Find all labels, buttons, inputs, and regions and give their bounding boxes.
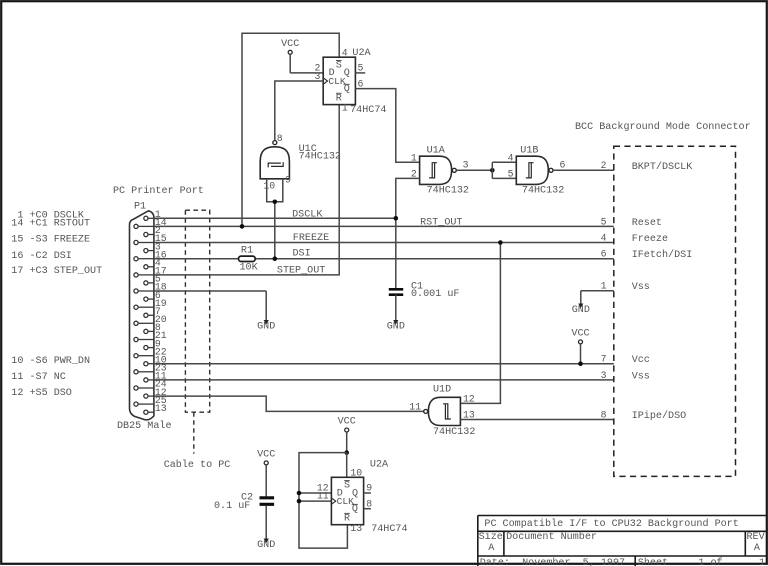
junction U1C inputs tie (273, 200, 278, 205)
wire U1A output to U1B inputs (456, 169, 492, 171)
svg-text:VCC: VCC (281, 39, 299, 50)
svg-text:74HC74: 74HC74 (371, 524, 407, 535)
svg-text:15 -S3 FREEZE: 15 -S3 FREEZE (11, 235, 90, 246)
svg-text:GND: GND (572, 305, 590, 316)
nand gate U1C 74HC132 (points up) (260, 147, 289, 179)
svg-text:Size: Size (479, 531, 503, 543)
junction VCC tie node (344, 450, 349, 455)
wire P1 pin18 to ground (154, 290, 266, 292)
wire U2A pin5 Q stub (355, 72, 365, 74)
junction FREEZE / U1D branch (498, 240, 503, 245)
wire net STEP_OUT (P1 pin17 right then up to U2A pin1) (154, 105, 339, 275)
svg-text:RST_OUT: RST_OUT (420, 218, 462, 229)
junction U1B input tie (490, 168, 495, 173)
connector P1 DB25 body (130, 211, 154, 420)
svg-text:74HC74: 74HC74 (350, 105, 386, 116)
svg-text:S: S (344, 481, 350, 492)
svg-text:8: 8 (601, 409, 607, 420)
svg-text:IPipe/DSO: IPipe/DSO (632, 410, 687, 422)
svg-text:U1A: U1A (427, 145, 446, 156)
svg-text:6: 6 (601, 249, 607, 260)
junction U1C input on DSI (273, 256, 278, 261)
svg-text:3: 3 (463, 160, 469, 171)
capacitor C1 (389, 289, 403, 294)
wire spare Q pin9 stub (364, 492, 371, 494)
wire net DSI right segment (R1 to BDM pin6) (255, 258, 614, 260)
cable boundary dashed stub (193, 412, 195, 453)
junction DSCLK / C1 branch (394, 216, 399, 221)
svg-text:8: 8 (277, 133, 283, 144)
svg-text:0.001 uF: 0.001 uF (411, 289, 459, 300)
wire net RST_OUT (P1 pin14 to BDM pin5) (154, 225, 614, 227)
wire VCC tie left loop to pin13 reset (299, 453, 347, 548)
nand gate U1A 74HC132 (420, 156, 452, 184)
wire spare Qbar pin8 stub (364, 508, 371, 510)
svg-text:74HC132: 74HC132 (522, 185, 564, 196)
svg-text:13: 13 (350, 523, 362, 534)
svg-text:11: 11 (409, 401, 421, 412)
junction RST_OUT / set loop (240, 224, 245, 229)
svg-text:GND: GND (257, 322, 275, 333)
svg-text:Q: Q (344, 84, 350, 95)
wire spare D pin12 tie (299, 492, 331, 494)
svg-text:U2A: U2A (352, 48, 371, 59)
svg-text:Freeze: Freeze (632, 234, 668, 245)
svg-text:A: A (488, 543, 495, 554)
wire U1C output to U2A pin3 CLK (275, 81, 323, 141)
svg-text:17 +C3 STEP_OUT: 17 +C3 STEP_OUT (11, 266, 102, 277)
nand gate U1D 74HC132 (points left) (428, 397, 460, 425)
wire FREEZE branch down to U1D pin12 (460, 243, 500, 404)
wire net Vss row (P1 pin11 to BDM pin3) (154, 379, 614, 381)
wire U2A pin6 Qbar to U1A pin1 (355, 89, 419, 163)
svg-text:10: 10 (263, 181, 275, 192)
svg-text:1: 1 (342, 103, 348, 114)
svg-text:A: A (754, 543, 761, 554)
junction spare D tie (297, 491, 302, 496)
svg-text:16 -C2 DSI: 16 -C2 DSI (11, 251, 72, 262)
svg-text:13: 13 (155, 403, 167, 414)
title block frame (478, 516, 767, 566)
cable boundary dashed box (185, 210, 209, 412)
wire VCC tie to pin10 set (346, 453, 348, 478)
svg-text:10: 10 (350, 468, 362, 479)
connector P1 pins 1-25 (circles, stubs, pin numbers) (144, 216, 148, 220)
wire net DSCLK (P1 pin1 to C1/U1A junction) (154, 217, 396, 219)
wire net BKPT/DSCLK (U1B output to BDM pin2) (553, 169, 614, 171)
wire net DSI left segment (P1 pin16 to R1) (154, 258, 239, 260)
svg-text:U2A: U2A (370, 460, 389, 471)
svg-text:GND: GND (257, 540, 275, 551)
svg-text:PC Compatible I/F to CPU32 Bac: PC Compatible I/F to CPU32 Background Po… (484, 518, 738, 530)
svg-text:Reset: Reset (632, 218, 662, 229)
svg-text:9: 9 (366, 483, 372, 494)
svg-text:4: 4 (508, 152, 514, 163)
svg-text:6: 6 (560, 160, 566, 171)
svg-text:12: 12 (463, 393, 475, 404)
wire spare CLK pin11 tie (299, 500, 331, 502)
svg-text:DSCLK: DSCLK (292, 210, 323, 221)
svg-text:R1: R1 (241, 245, 253, 256)
svg-text:FREEZE: FREEZE (293, 233, 329, 244)
svg-text:11 -S7 NC: 11 -S7 NC (11, 372, 66, 383)
svg-text:GND: GND (387, 322, 405, 333)
wire net IPipe/DSO (U1D pin13 to BDM pin8) (460, 419, 613, 421)
ground symbol below C1 (395, 295, 397, 320)
svg-text:Document Number: Document Number (506, 531, 597, 543)
svg-text:Vss: Vss (632, 282, 650, 293)
ground symbol at BDM Vss pin1 (580, 291, 582, 304)
svg-text:DB25 Male: DB25 Male (117, 420, 172, 432)
svg-text:DSI: DSI (293, 249, 311, 260)
flip-flop U2A (74HC74) spare half (331, 477, 363, 524)
flip-flop U2A (74HC74) top (323, 57, 355, 104)
svg-text:REV: REV (747, 532, 765, 543)
svg-text:Q: Q (352, 504, 358, 515)
svg-text:STEP_OUT: STEP_OUT (277, 265, 325, 276)
svg-text:U1B: U1B (520, 145, 538, 156)
svg-text:4: 4 (601, 232, 607, 243)
wire net DSO (P1 pin12 jog to U1D output) (154, 396, 424, 411)
wire net PWR_DN / Vcc row (P1 pin10 to BDM pin7) (154, 363, 614, 365)
svg-text:14 +C1 RSTOUT: 14 +C1 RSTOUT (11, 219, 90, 230)
svg-text:Sheet 1 of 1: Sheet 1 of 1 (638, 557, 765, 566)
svg-text:9: 9 (285, 175, 291, 186)
svg-text:P1: P1 (134, 202, 146, 213)
svg-text:Q: Q (352, 488, 358, 499)
svg-text:S: S (336, 61, 342, 72)
wire net FREEZE (P1 pin15 to BDM pin4) (154, 242, 614, 244)
svg-text:5: 5 (358, 63, 364, 74)
svg-text:5: 5 (508, 168, 514, 179)
svg-text:10 -S6 PWR_DN: 10 -S6 PWR_DN (11, 356, 90, 367)
svg-text:4: 4 (342, 48, 348, 59)
svg-text:BKPT/DSCLK: BKPT/DSCLK (632, 161, 694, 173)
svg-text:Date: November 5, 1997: Date: November 5, 1997 (480, 557, 625, 566)
svg-text:6: 6 (358, 78, 364, 89)
resistor R1 (239, 256, 256, 261)
svg-text:BCC Background Mode Connector: BCC Background Mode Connector (575, 121, 751, 133)
svg-text:VCC: VCC (571, 328, 589, 339)
wire U2A pin4 set loop (top horizontal and left vertical to RST_OUT) (242, 33, 339, 226)
svg-text:7: 7 (601, 354, 607, 365)
svg-text:U1D: U1D (433, 385, 451, 396)
nand gate U1B 74HC132 (516, 156, 548, 184)
svg-text:11: 11 (317, 491, 329, 502)
svg-text:0.1 uF: 0.1 uF (214, 501, 250, 512)
svg-text:8: 8 (366, 498, 372, 509)
wire VCC to U2A pin2 (290, 72, 323, 74)
ground symbol at P1 pin18 (265, 291, 267, 320)
svg-text:3: 3 (601, 370, 607, 381)
svg-text:R: R (344, 513, 350, 524)
wire U1C tied inputs U-loop down to DSI (267, 179, 283, 202)
svg-text:Vss: Vss (632, 371, 650, 382)
wire U1A pin2 down to DSCLK and C1 (396, 178, 420, 288)
wire U1B tied inputs (491, 162, 493, 178)
svg-text:74HC132: 74HC132 (299, 151, 341, 162)
junction spare CLK tie (297, 499, 302, 504)
svg-text:10K: 10K (240, 262, 259, 273)
svg-text:IFetch/DSI: IFetch/DSI (632, 249, 693, 261)
svg-text:Cable to PC: Cable to PC (164, 459, 231, 471)
svg-text:Q: Q (344, 68, 350, 79)
svg-text:PC Printer Port: PC Printer Port (113, 185, 204, 197)
svg-text:74HC132: 74HC132 (433, 427, 475, 438)
svg-text:5: 5 (601, 216, 607, 227)
svg-text:1: 1 (411, 152, 417, 163)
svg-text:Vcc: Vcc (632, 355, 650, 366)
wire BDM pin1 Vss to ground (581, 290, 614, 292)
svg-text:VCC: VCC (338, 417, 356, 428)
svg-text:12 +S5 DSO: 12 +S5 DSO (11, 388, 72, 399)
ground symbol below C2 (265, 506, 267, 539)
junction VCC on Vcc row (578, 361, 583, 366)
svg-text:VCC: VCC (257, 449, 275, 460)
svg-text:74HC132: 74HC132 (427, 185, 469, 196)
BDM connector dashed box (614, 146, 736, 476)
svg-text:2: 2 (601, 160, 607, 171)
capacitor C2 (260, 498, 275, 505)
